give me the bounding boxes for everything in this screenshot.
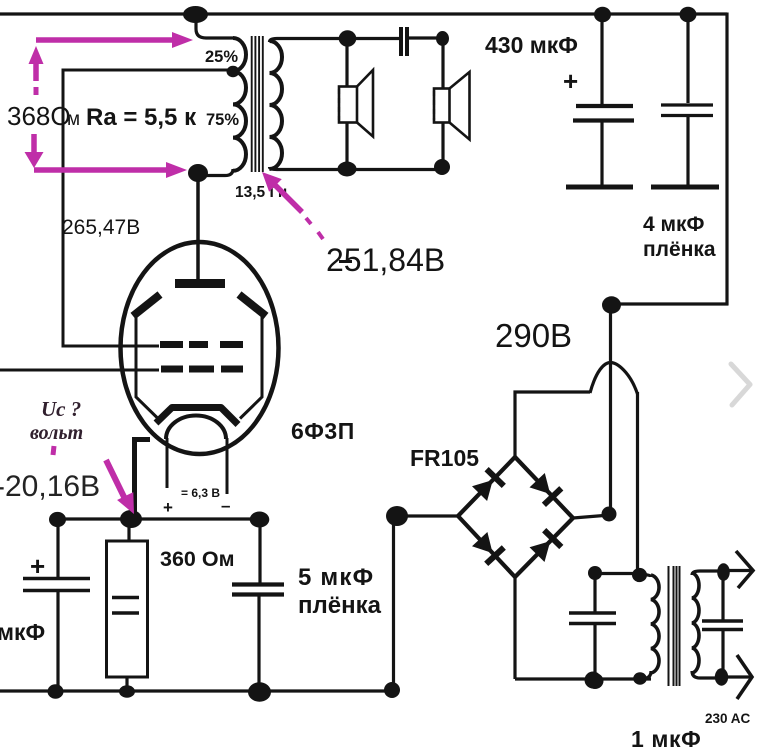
label 265,47В xyxy=(62,216,140,239)
svg-text:5 мкФ: 5 мкФ xyxy=(298,564,374,591)
node cathode junction xyxy=(120,510,142,528)
label 5 мкФ xyxy=(298,564,374,591)
chevron next xyxy=(731,364,750,405)
svg-text:230 AC: 230 AC xyxy=(705,711,751,726)
annotation arrow to core xyxy=(262,172,302,212)
node OT primary bottom junction xyxy=(188,164,208,182)
label 368Ом xyxy=(7,101,80,131)
wire speaker1 top lead xyxy=(345,39,348,87)
node ground C4 xyxy=(48,684,64,698)
svg-text:290В: 290В xyxy=(495,317,572,354)
capacitor crossover plates xyxy=(401,27,407,56)
svg-text:–: – xyxy=(221,496,230,515)
node PT secondary bottom xyxy=(715,668,728,685)
label 75% xyxy=(206,111,239,129)
node ground rail right end xyxy=(384,682,400,698)
label плёнка C2 xyxy=(643,238,716,261)
label 4 мкФ xyxy=(643,213,705,236)
label 251,84В xyxy=(326,242,445,278)
tube heater leg left xyxy=(166,438,169,488)
node speaker1 top xyxy=(339,30,357,46)
label 430 мкФ xyxy=(485,32,578,58)
node PT bottom left junction xyxy=(585,672,602,689)
wire ground rail xyxy=(0,689,393,692)
wire bridge top to hop xyxy=(515,392,590,458)
wire C2 bottom lead xyxy=(686,117,689,186)
node bridge right junction xyxy=(602,507,617,522)
annotation arrow bottom horizontal xyxy=(34,162,187,178)
wire OT primary bottom lead xyxy=(203,169,233,176)
wire C1 top lead xyxy=(600,16,603,106)
node PT secondary top xyxy=(717,563,730,581)
wire OT secondary top xyxy=(270,39,400,43)
annotation dashes to 251 xyxy=(306,218,323,239)
transformer OT primary winding xyxy=(233,38,246,171)
label FR105 xyxy=(410,445,479,471)
wire anode to OT xyxy=(196,174,200,281)
wire speaker2 bottom lead xyxy=(441,122,444,168)
wire 290V node to right border xyxy=(609,302,729,305)
label = 6,3 В xyxy=(181,486,220,500)
label плёнка C5 xyxy=(298,592,382,619)
capacitor mains plates xyxy=(702,621,743,630)
transformer OT core xyxy=(252,36,263,172)
wire speaker1 bottom lead xyxy=(345,122,348,169)
annotation dash Uc xyxy=(53,446,54,455)
capacitor C4 plates xyxy=(23,579,90,591)
svg-text:368О: 368О xyxy=(7,101,71,131)
annotation dash upper xyxy=(34,87,39,95)
node C3 bottom xyxy=(587,673,604,689)
wire bridge right to B+ xyxy=(573,515,610,518)
capacitor C5 plates xyxy=(232,585,284,595)
stray dash on 251 xyxy=(339,260,352,263)
label Ra = 5,5 к xyxy=(86,104,197,131)
tube heater dome xyxy=(166,416,226,440)
label 290В xyxy=(495,317,572,354)
label 6Ф3П xyxy=(291,418,355,444)
bridge edge bottom-right xyxy=(515,518,573,577)
svg-text:4 мкФ: 4 мкФ xyxy=(643,213,705,236)
wire right border xyxy=(725,13,728,306)
capacitor C1 bottom bar xyxy=(566,185,633,190)
transformer PT secondary winding xyxy=(692,573,699,673)
svg-text:+: + xyxy=(563,66,578,96)
node 290V xyxy=(602,296,621,313)
label 25% xyxy=(205,48,238,66)
capacitor C1 430uF plates xyxy=(573,106,634,121)
node PT top left junction xyxy=(588,566,602,580)
label -20,16В xyxy=(0,470,100,503)
svg-text:мкФ: мкФ xyxy=(0,619,45,645)
node PT primary top junction xyxy=(632,568,647,582)
node bridge left xyxy=(386,506,408,526)
bridge edge top-right xyxy=(515,457,573,518)
wire C5 bottom lead xyxy=(257,596,260,691)
wire bridge left down to ground xyxy=(392,516,395,690)
wire hop down to PT primary xyxy=(636,392,639,571)
wire hop over B+ xyxy=(590,363,638,395)
bridge edge bottom-left xyxy=(458,516,515,577)
svg-text:плёнка: плёнка xyxy=(298,592,382,619)
wire OT secondary bottom xyxy=(270,167,444,170)
svg-text:75%: 75% xyxy=(206,111,239,129)
tube beam plate left side xyxy=(136,316,158,419)
wire C3 top lead xyxy=(593,573,596,612)
svg-text:+: + xyxy=(30,551,45,581)
wire bridge bottom down xyxy=(513,577,516,679)
svg-text:Ra = 5,5 к: Ra = 5,5 к xyxy=(86,104,197,131)
node speaker1 bottom xyxy=(338,162,357,177)
label + C4 xyxy=(30,551,45,581)
diode D3 xyxy=(472,532,504,564)
capacitor C2 bottom bar xyxy=(651,185,719,190)
svg-text:плёнка: плёнка xyxy=(643,238,716,261)
svg-text:-20,16В: -20,16В xyxy=(0,470,100,503)
wire R1 bottom lead xyxy=(125,677,128,691)
svg-text:6Ф3П: 6Ф3П xyxy=(291,418,355,444)
svg-text:1 мкФ: 1 мкФ xyxy=(631,726,701,750)
wire cathode lead xyxy=(135,440,151,517)
wire PT secondary top lead xyxy=(692,571,723,575)
wire OT primary top lead xyxy=(196,15,233,38)
node junction top rail to OT primary xyxy=(183,6,208,23)
annotation arrow top horizontal xyxy=(36,32,193,48)
svg-text:265,47В: 265,47В xyxy=(62,216,140,239)
label мкФ clipped xyxy=(0,619,45,645)
capacitor C2 4uF plates xyxy=(661,105,713,116)
wire grid input from left edge xyxy=(0,369,159,372)
label вольт xyxy=(30,422,83,444)
tube grid row1 xyxy=(160,341,243,348)
diode D1 xyxy=(472,469,504,501)
capacitor C3 1uF plates xyxy=(569,613,616,624)
wire PT primary bottom lead xyxy=(643,671,651,679)
wire 25% tap feedback xyxy=(63,70,234,346)
tube anode plate xyxy=(175,279,225,288)
wire C3 bottom lead xyxy=(593,625,596,681)
wire PT secondary bottom lead xyxy=(692,671,721,678)
wire R1 top lead xyxy=(127,519,130,541)
label 13,5 Гн xyxy=(235,184,287,201)
tube cathode xyxy=(156,408,238,425)
wire bridge bottom to PT xyxy=(515,677,651,680)
wire C1 bottom lead xyxy=(600,122,603,186)
diode D2 xyxy=(530,473,562,505)
label heater - xyxy=(221,496,230,515)
wire PT primary top lead xyxy=(640,575,651,578)
bridge edge top-left xyxy=(458,457,515,516)
node top rail C1 xyxy=(594,7,611,23)
arrow mains top xyxy=(723,551,753,588)
transformer OT secondary winding xyxy=(270,41,283,169)
wire C4 bottom lead xyxy=(56,592,59,691)
tube beam plate right top xyxy=(239,295,266,317)
tube beam plate left top xyxy=(133,295,160,317)
wire mains cap bottom lead xyxy=(721,631,724,675)
wire bridge left to diamond xyxy=(397,514,459,517)
wire C4 top lead xyxy=(56,519,59,577)
speaker SP1 xyxy=(339,70,373,137)
label 1 мкФ xyxy=(631,726,701,750)
node ground R1 xyxy=(119,685,135,697)
node PT primary bottom junction xyxy=(633,672,647,684)
wire B+ top rail xyxy=(0,12,727,15)
svg-text:Uc ?: Uc ? xyxy=(41,397,81,421)
label 230 AC xyxy=(705,711,751,726)
speaker SP2 xyxy=(434,72,470,140)
resistor R1 xyxy=(107,541,148,677)
svg-text:25%: 25% xyxy=(205,48,238,66)
wire PT top xyxy=(595,572,640,575)
node OT 25% tap xyxy=(227,66,240,77)
label heater + xyxy=(163,498,173,517)
diode D4 xyxy=(530,530,562,562)
svg-text:м: м xyxy=(67,109,80,130)
tube heater leg right xyxy=(226,438,229,494)
transformer PT primary winding xyxy=(651,575,659,673)
wire speaker2 top lead xyxy=(441,39,444,89)
svg-text:FR105: FR105 xyxy=(410,445,479,471)
node cathode rail right xyxy=(250,512,270,528)
svg-text:360 Ом: 360 Ом xyxy=(160,547,234,571)
wire B+ down to bridge xyxy=(609,304,612,515)
svg-text:+: + xyxy=(163,498,173,517)
label 360 Ом xyxy=(160,547,234,571)
tube envelope xyxy=(121,242,279,454)
svg-text:= 6,3 В: = 6,3 В xyxy=(181,486,220,500)
tube grid row2 xyxy=(161,366,243,373)
svg-text:430 мкФ: 430 мкФ xyxy=(485,32,578,58)
node speaker2 bottom xyxy=(434,159,450,175)
wire C5 top lead xyxy=(258,519,261,584)
arrow mains bottom xyxy=(722,655,752,699)
transformer PT core xyxy=(669,566,680,686)
annotation arrow to cathode xyxy=(106,460,134,514)
node ground C5 xyxy=(248,682,271,702)
wire mains cap top lead xyxy=(721,572,724,620)
label Uc ? xyxy=(41,397,81,421)
label + C1 xyxy=(563,66,578,96)
annotation arrow down xyxy=(25,134,44,168)
tube beam plate right side xyxy=(240,316,262,419)
node top rail C2 xyxy=(680,7,697,23)
wire cathode rail xyxy=(58,517,259,520)
node speaker2 top xyxy=(436,31,449,46)
svg-text:вольт: вольт xyxy=(30,422,83,444)
node cathode rail left xyxy=(49,512,66,527)
wire C2 top lead xyxy=(686,16,689,103)
annotation arrow up xyxy=(29,46,44,81)
wire cap to speaker2 xyxy=(407,36,443,39)
